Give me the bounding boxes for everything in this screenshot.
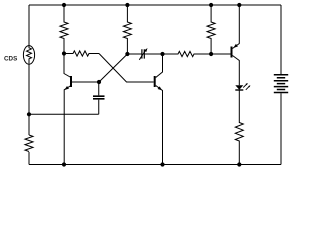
- svg-text:CDS: CDS: [4, 56, 17, 63]
